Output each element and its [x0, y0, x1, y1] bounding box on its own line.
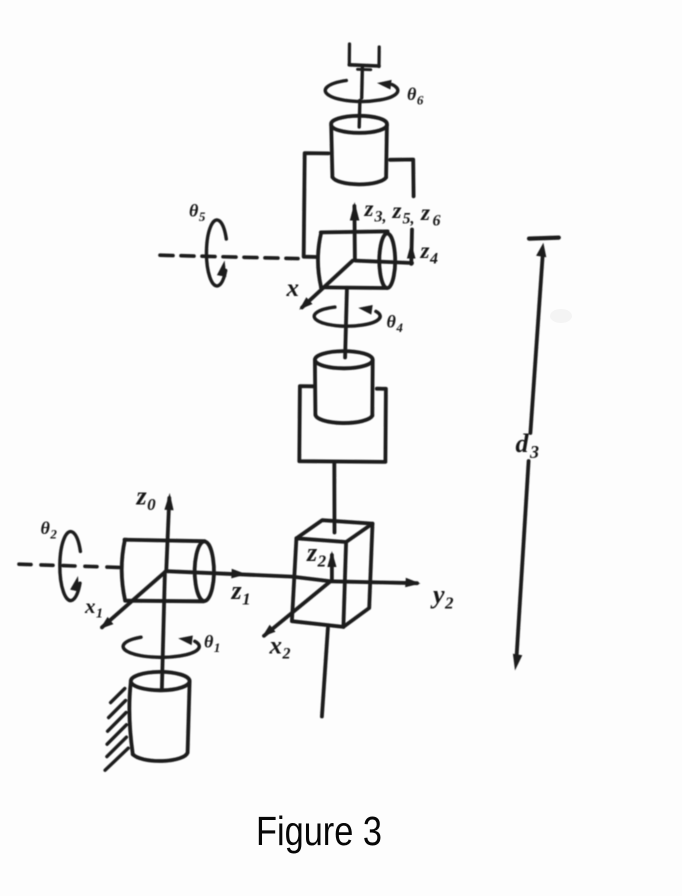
svg-text:x: x — [286, 275, 300, 302]
svg-text:Figure 3: Figure 3 — [256, 808, 382, 854]
